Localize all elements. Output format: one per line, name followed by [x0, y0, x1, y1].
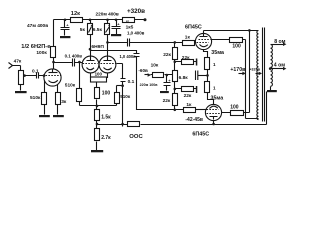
svg-text:510к: 510к [30, 95, 41, 101]
svg-text:1: 1 [213, 62, 216, 67]
svg-text:6П45С: 6П45С [192, 131, 209, 137]
svg-text:10к: 10к [151, 63, 159, 69]
svg-text:100: 100 [102, 91, 111, 97]
svg-text:3к: 3к [61, 99, 67, 105]
svg-text:1,0 400в: 1,0 400в [120, 54, 137, 59]
svg-text:0.1: 0.1 [32, 69, 39, 75]
svg-text:100: 100 [230, 105, 239, 111]
svg-text:22к: 22к [163, 98, 171, 104]
svg-text:0.1: 0.1 [128, 79, 135, 85]
svg-text:8 ом: 8 ом [274, 39, 285, 45]
svg-text:220м 400в: 220м 400в [96, 11, 119, 16]
svg-text:100: 100 [95, 71, 103, 76]
svg-text:22к: 22к [163, 52, 171, 58]
svg-text:-60в: -60в [138, 68, 148, 73]
svg-text:6.5к: 6.5к [93, 27, 103, 33]
svg-text:ООС: ООС [129, 134, 143, 140]
svg-text:4 ом: 4 ом [274, 63, 285, 69]
svg-text:1/2 6Н2П-е: 1/2 6Н2П-е [21, 44, 50, 50]
svg-text:6П45С: 6П45С [185, 24, 202, 30]
svg-text:220м 100в: 220м 100в [140, 83, 159, 87]
svg-text:1к: 1к [186, 102, 192, 108]
svg-text:+320в: +320в [127, 8, 145, 15]
svg-text:35ма: 35ма [211, 50, 224, 56]
svg-text:22к: 22к [184, 93, 192, 99]
svg-text:510к: 510к [120, 94, 131, 99]
svg-text:22к: 22к [182, 55, 190, 61]
svg-text:6Н9П: 6Н9П [91, 44, 104, 50]
svg-text:1: 1 [213, 86, 216, 91]
svg-text:+170в: +170в [230, 67, 245, 73]
svg-text:100: 100 [232, 43, 241, 49]
svg-text:6.8к: 6.8к [179, 75, 189, 81]
svg-text:100к: 100к [36, 50, 47, 56]
svg-text:35ма: 35ма [211, 96, 224, 102]
svg-text:12к: 12к [71, 11, 80, 17]
svg-text:47к: 47к [14, 58, 22, 64]
svg-text:1.5к: 1.5к [101, 115, 111, 121]
svg-text:2.7к: 2.7к [101, 135, 111, 141]
svg-text:1,0 400в: 1,0 400в [127, 30, 145, 35]
svg-text:1к: 1к [185, 35, 191, 41]
svg-text:-42-45в: -42-45в [185, 117, 203, 123]
svg-text:510к: 510к [65, 83, 76, 89]
svg-text:+320в: +320в [249, 68, 261, 72]
svg-text:0.1 400в: 0.1 400в [65, 53, 83, 58]
svg-text:47м 400в: 47м 400в [27, 23, 48, 29]
svg-text:5к: 5к [80, 27, 86, 33]
